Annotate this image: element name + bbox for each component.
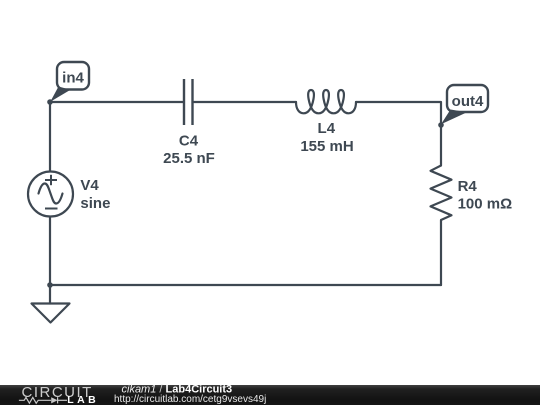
footer bar background [0,385,540,405]
voltage source V4 plus sign [45,175,57,185]
svg-text:L4: L4 [318,120,336,137]
svg-text:http://circuitlab.com/cetg9vse: http://circuitlab.com/cetg9vsevs49j [114,394,266,405]
svg-text:100 mΩ: 100 mΩ [458,195,513,212]
voltage source V4 minus sign [45,208,58,210]
junction dot node out4 [438,122,444,128]
voltage source V4 circle [28,172,73,217]
junction dot node in4 [47,99,53,105]
inductor L4 [296,90,356,113]
capacitor C4 [184,79,193,125]
wire C4 right plate to L4 [193,101,297,103]
wire ground stem [49,285,51,304]
node flag in4 box [57,62,89,90]
wire L4 to top-right corner down to R4 top [356,102,441,166]
wire top-left horizontal (in4 to C4 left plate) [50,101,184,103]
svg-text:155 mH: 155 mH [300,138,353,155]
svg-text:sine: sine [80,195,110,212]
node flag out4 box [447,85,488,112]
svg-text:R4: R4 [458,178,478,195]
svg-text:in4: in4 [62,70,84,87]
voltage source V4 sine symbol [39,184,63,204]
logo diode triangle [51,397,57,403]
resistor R4 [431,166,452,221]
wire V4 bottom to bottom-left node [49,217,51,286]
svg-text:LAB: LAB [67,394,99,405]
ground symbol [32,304,70,323]
node flag out4 tail [441,110,467,125]
svg-text:25.5 nF: 25.5 nF [163,150,215,167]
wire R4 bottom to bottom wire [440,220,442,285]
junction dot bottom-left node [47,282,53,288]
svg-text:V4: V4 [80,177,99,194]
svg-text:out4: out4 [452,93,484,110]
wire bottom horizontal [50,284,441,286]
wire left vertical (in4 node down to V4 top) [49,102,51,172]
logo circuit glyph (resistor zigzag and diode) [19,397,67,403]
svg-text:C4: C4 [179,132,199,149]
node flag in4 tail [50,87,70,102]
